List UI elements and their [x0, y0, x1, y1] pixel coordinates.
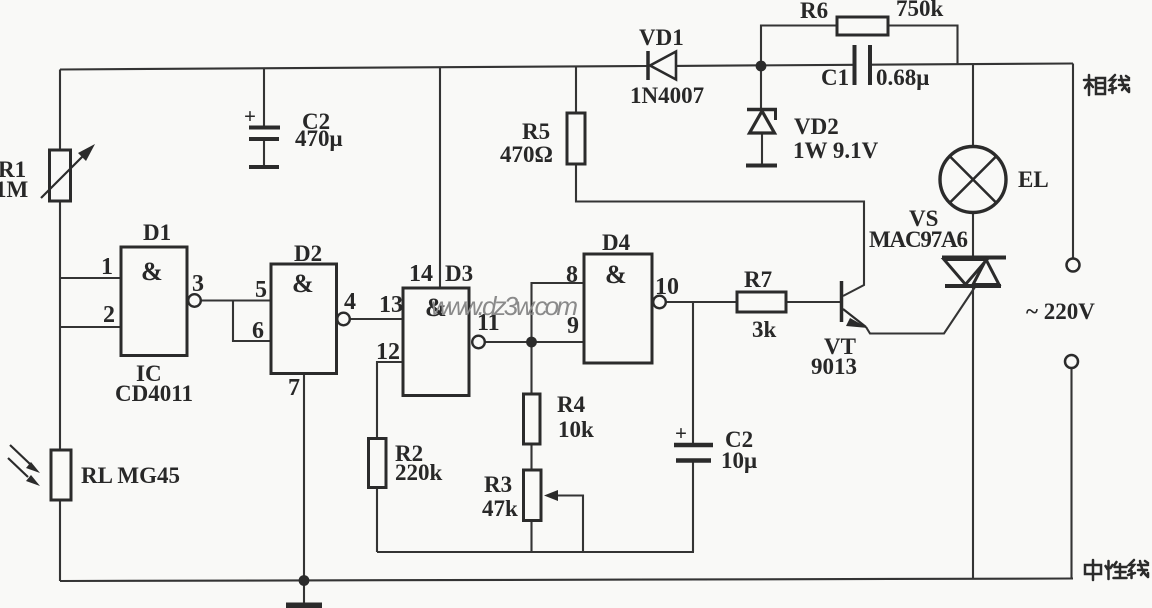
- R1 arrow head: [78, 144, 95, 161]
- gate D2 output bubble: [337, 313, 350, 326]
- wire triac MT1 down: [972, 287, 974, 579]
- svg-text:0.68μ: 0.68μ: [876, 65, 929, 90]
- capacitor C2a top plate: [249, 126, 280, 130]
- junction node bottom: [299, 575, 310, 586]
- label xian (phase char 2): [1109, 75, 1129, 93]
- lamp EL circle: [940, 147, 1006, 213]
- svg-text:3: 3: [192, 271, 204, 297]
- svg-text:12: 12: [376, 339, 400, 365]
- capacitor C2b top plate: [674, 443, 713, 448]
- wire R3 wiper: [548, 496, 583, 553]
- wire D3 output to D4 pin9: [485, 341, 583, 343]
- resistor R4 body: [524, 394, 541, 444]
- svg-text:470μ: 470μ: [295, 126, 343, 151]
- gate D3 output bubble: [472, 336, 485, 349]
- gate D2 box: [271, 264, 337, 374]
- wire D1 pin2: [60, 326, 121, 328]
- label xing (neutral char 2): [1106, 561, 1127, 579]
- triac VS left triangle: [944, 260, 987, 285]
- resistor R7 body: [737, 292, 786, 312]
- svg-text:47k: 47k: [482, 496, 518, 521]
- wire ground stub: [303, 581, 305, 603]
- svg-text:VD2: VD2: [794, 114, 839, 139]
- wire D4 output to R7: [666, 301, 737, 303]
- svg-text:10k: 10k: [558, 417, 594, 442]
- wire VD2 mid: [761, 133, 763, 164]
- svg-text:5: 5: [255, 277, 267, 303]
- label xiang (phase char 1): [1084, 75, 1105, 95]
- label xian (neutral char 3): [1128, 560, 1148, 578]
- capacitor C2a end bar: [249, 165, 279, 169]
- capacitor C2a bottom plate: [249, 137, 279, 141]
- wire VT emitter run: [866, 287, 975, 334]
- svg-text:+: +: [675, 421, 687, 445]
- svg-text:1M: 1M: [0, 177, 29, 202]
- svg-text:www.dz3w.com: www.dz3w.com: [431, 291, 578, 321]
- svg-text:9013: 9013: [811, 354, 857, 379]
- svg-text:1: 1: [101, 254, 113, 280]
- svg-text:&: &: [605, 260, 627, 289]
- svg-text:R3: R3: [484, 472, 512, 497]
- svg-text:470Ω: 470Ω: [500, 142, 553, 167]
- triac VS right triangle: [973, 260, 999, 285]
- svg-text:D1: D1: [143, 220, 171, 245]
- R1 arrow diagonal: [41, 148, 91, 198]
- diode VD1 cathode bar: [646, 51, 650, 80]
- wire R5 top: [575, 66, 577, 113]
- RL light arrow 2: [8, 458, 28, 477]
- wire phase terminal drop: [1072, 64, 1074, 259]
- wire R2 bottom: [376, 488, 378, 553]
- capacitor C1 left plate: [853, 45, 857, 85]
- wire D1 output to D2 pin5: [201, 299, 272, 301]
- RL light arrow 1 head: [26, 462, 40, 473]
- wire R5 bottom to VT collector: [576, 164, 864, 296]
- resistor R5 body: [567, 113, 585, 164]
- ground bar: [286, 603, 322, 608]
- svg-text:R5: R5: [522, 119, 550, 144]
- svg-text:R4: R4: [557, 392, 586, 417]
- RL light arrow 1: [10, 445, 30, 464]
- terminal phase circle: [1067, 259, 1080, 272]
- svg-text:2: 2: [103, 302, 115, 328]
- wire C2b minus down: [692, 462, 694, 552]
- svg-text:RL MG45: RL MG45: [81, 463, 180, 488]
- svg-text:VD1: VD1: [639, 25, 684, 50]
- svg-text:D3: D3: [445, 261, 473, 286]
- wire branch to D4 pin8: [532, 283, 585, 342]
- wire EL to triac: [972, 212, 974, 256]
- wire R7 to VT base: [786, 301, 840, 303]
- junction node mid: [526, 337, 537, 348]
- wire top rail mid segment: [676, 65, 854, 66]
- svg-text:~ 220V: ~ 220V: [1026, 299, 1095, 324]
- terminal neutral circle: [1065, 355, 1078, 368]
- svg-text:1N4007: 1N4007: [630, 83, 704, 108]
- junction node top: [756, 61, 767, 72]
- svg-text:220k: 220k: [395, 460, 443, 485]
- wire D2 pin7 down: [303, 374, 305, 582]
- svg-text:D2: D2: [294, 241, 322, 266]
- wire neutral terminal drop: [1070, 368, 1072, 579]
- gate D1 box: [121, 247, 187, 356]
- svg-text:7: 7: [288, 375, 300, 401]
- zener VD2 cathode bar: [747, 108, 777, 112]
- wire R4 to R3: [530, 444, 532, 470]
- svg-text:C1: C1: [821, 65, 849, 90]
- triac VS top bar: [942, 256, 1006, 260]
- wire sub rail: [377, 551, 694, 553]
- svg-text:1W 9.1V: 1W 9.1V: [793, 138, 879, 163]
- wire D3 pin14 to top rail: [439, 67, 441, 288]
- wire VD2 top: [760, 66, 762, 108]
- wire top rail left segment: [60, 66, 647, 70]
- wire EL lamp top: [972, 64, 974, 147]
- wire left rail upper: [59, 70, 61, 152]
- capacitor C2b bottom plate: [676, 458, 711, 463]
- gate D1 output bubble: [188, 294, 201, 307]
- transistor VT base bar: [840, 281, 844, 322]
- svg-text:EL: EL: [1018, 167, 1049, 192]
- resistor R3 body: [524, 470, 542, 521]
- resistor R6 body: [837, 17, 888, 35]
- lamp EL cross: [950, 157, 996, 203]
- diode VD1 triangle: [650, 52, 676, 80]
- resistor R2 body: [369, 439, 387, 488]
- svg-text:13: 13: [379, 292, 403, 318]
- wire bottom rail: [60, 579, 1073, 582]
- transistor VT emitter arrowhead: [846, 318, 868, 328]
- svg-text:R7: R7: [744, 267, 772, 292]
- svg-text:MAC97A6: MAC97A6: [869, 227, 968, 252]
- wire R6 branch left: [761, 26, 837, 67]
- resistor RL MG45 body: [51, 450, 71, 500]
- R3 wiper arrowhead: [544, 490, 558, 501]
- gate D4 box: [584, 254, 652, 363]
- zener VD2 triangle: [750, 111, 775, 133]
- svg-text:8: 8: [566, 262, 578, 288]
- svg-text:14: 14: [409, 261, 433, 287]
- transistor VT emitter diagonal: [843, 309, 866, 327]
- capacitor C1 right plate: [868, 45, 872, 85]
- wire C2a stub: [263, 140, 265, 166]
- RL light arrow 2 head: [26, 475, 40, 486]
- svg-text:&: &: [292, 269, 314, 298]
- wire left rail middle: [59, 200, 61, 451]
- svg-text:+: +: [244, 104, 256, 128]
- svg-text:R6: R6: [800, 0, 828, 23]
- wire feedback drop to pin6: [233, 301, 271, 342]
- wire D1 pin1: [60, 277, 121, 279]
- wire drop to C2b plus: [692, 302, 694, 443]
- wire node to R4: [530, 342, 532, 394]
- svg-text:CD4011: CD4011: [115, 381, 193, 406]
- svg-text:10: 10: [655, 274, 679, 300]
- gate D3 box: [403, 288, 469, 396]
- wire R6 branch right: [888, 26, 958, 65]
- svg-text:3k: 3k: [752, 317, 777, 342]
- wire C2a lead: [263, 69, 265, 126]
- wire left rail lower: [59, 499, 61, 581]
- resistor R1 (photoresistor pot body): [50, 150, 71, 201]
- wire top rail right segment: [871, 64, 1073, 65]
- svg-text:6: 6: [252, 318, 264, 344]
- svg-text:750k: 750k: [896, 0, 944, 21]
- triac VS bottom bar: [945, 284, 1001, 288]
- wire R3 bottom: [530, 521, 532, 553]
- zener VD2 end bar: [746, 164, 777, 168]
- gate D4 output bubble: [653, 296, 666, 309]
- wire D2 output to D3 pin13: [350, 318, 403, 320]
- svg-text:4: 4: [344, 289, 356, 315]
- label zhong (neutral char 1): [1085, 560, 1101, 580]
- svg-text:D4: D4: [602, 230, 631, 255]
- zener VD2 bar hook: [774, 110, 777, 121]
- wire D3 pin12 to R2: [377, 362, 403, 439]
- svg-text:10μ: 10μ: [721, 448, 757, 473]
- svg-text:&: &: [141, 257, 163, 286]
